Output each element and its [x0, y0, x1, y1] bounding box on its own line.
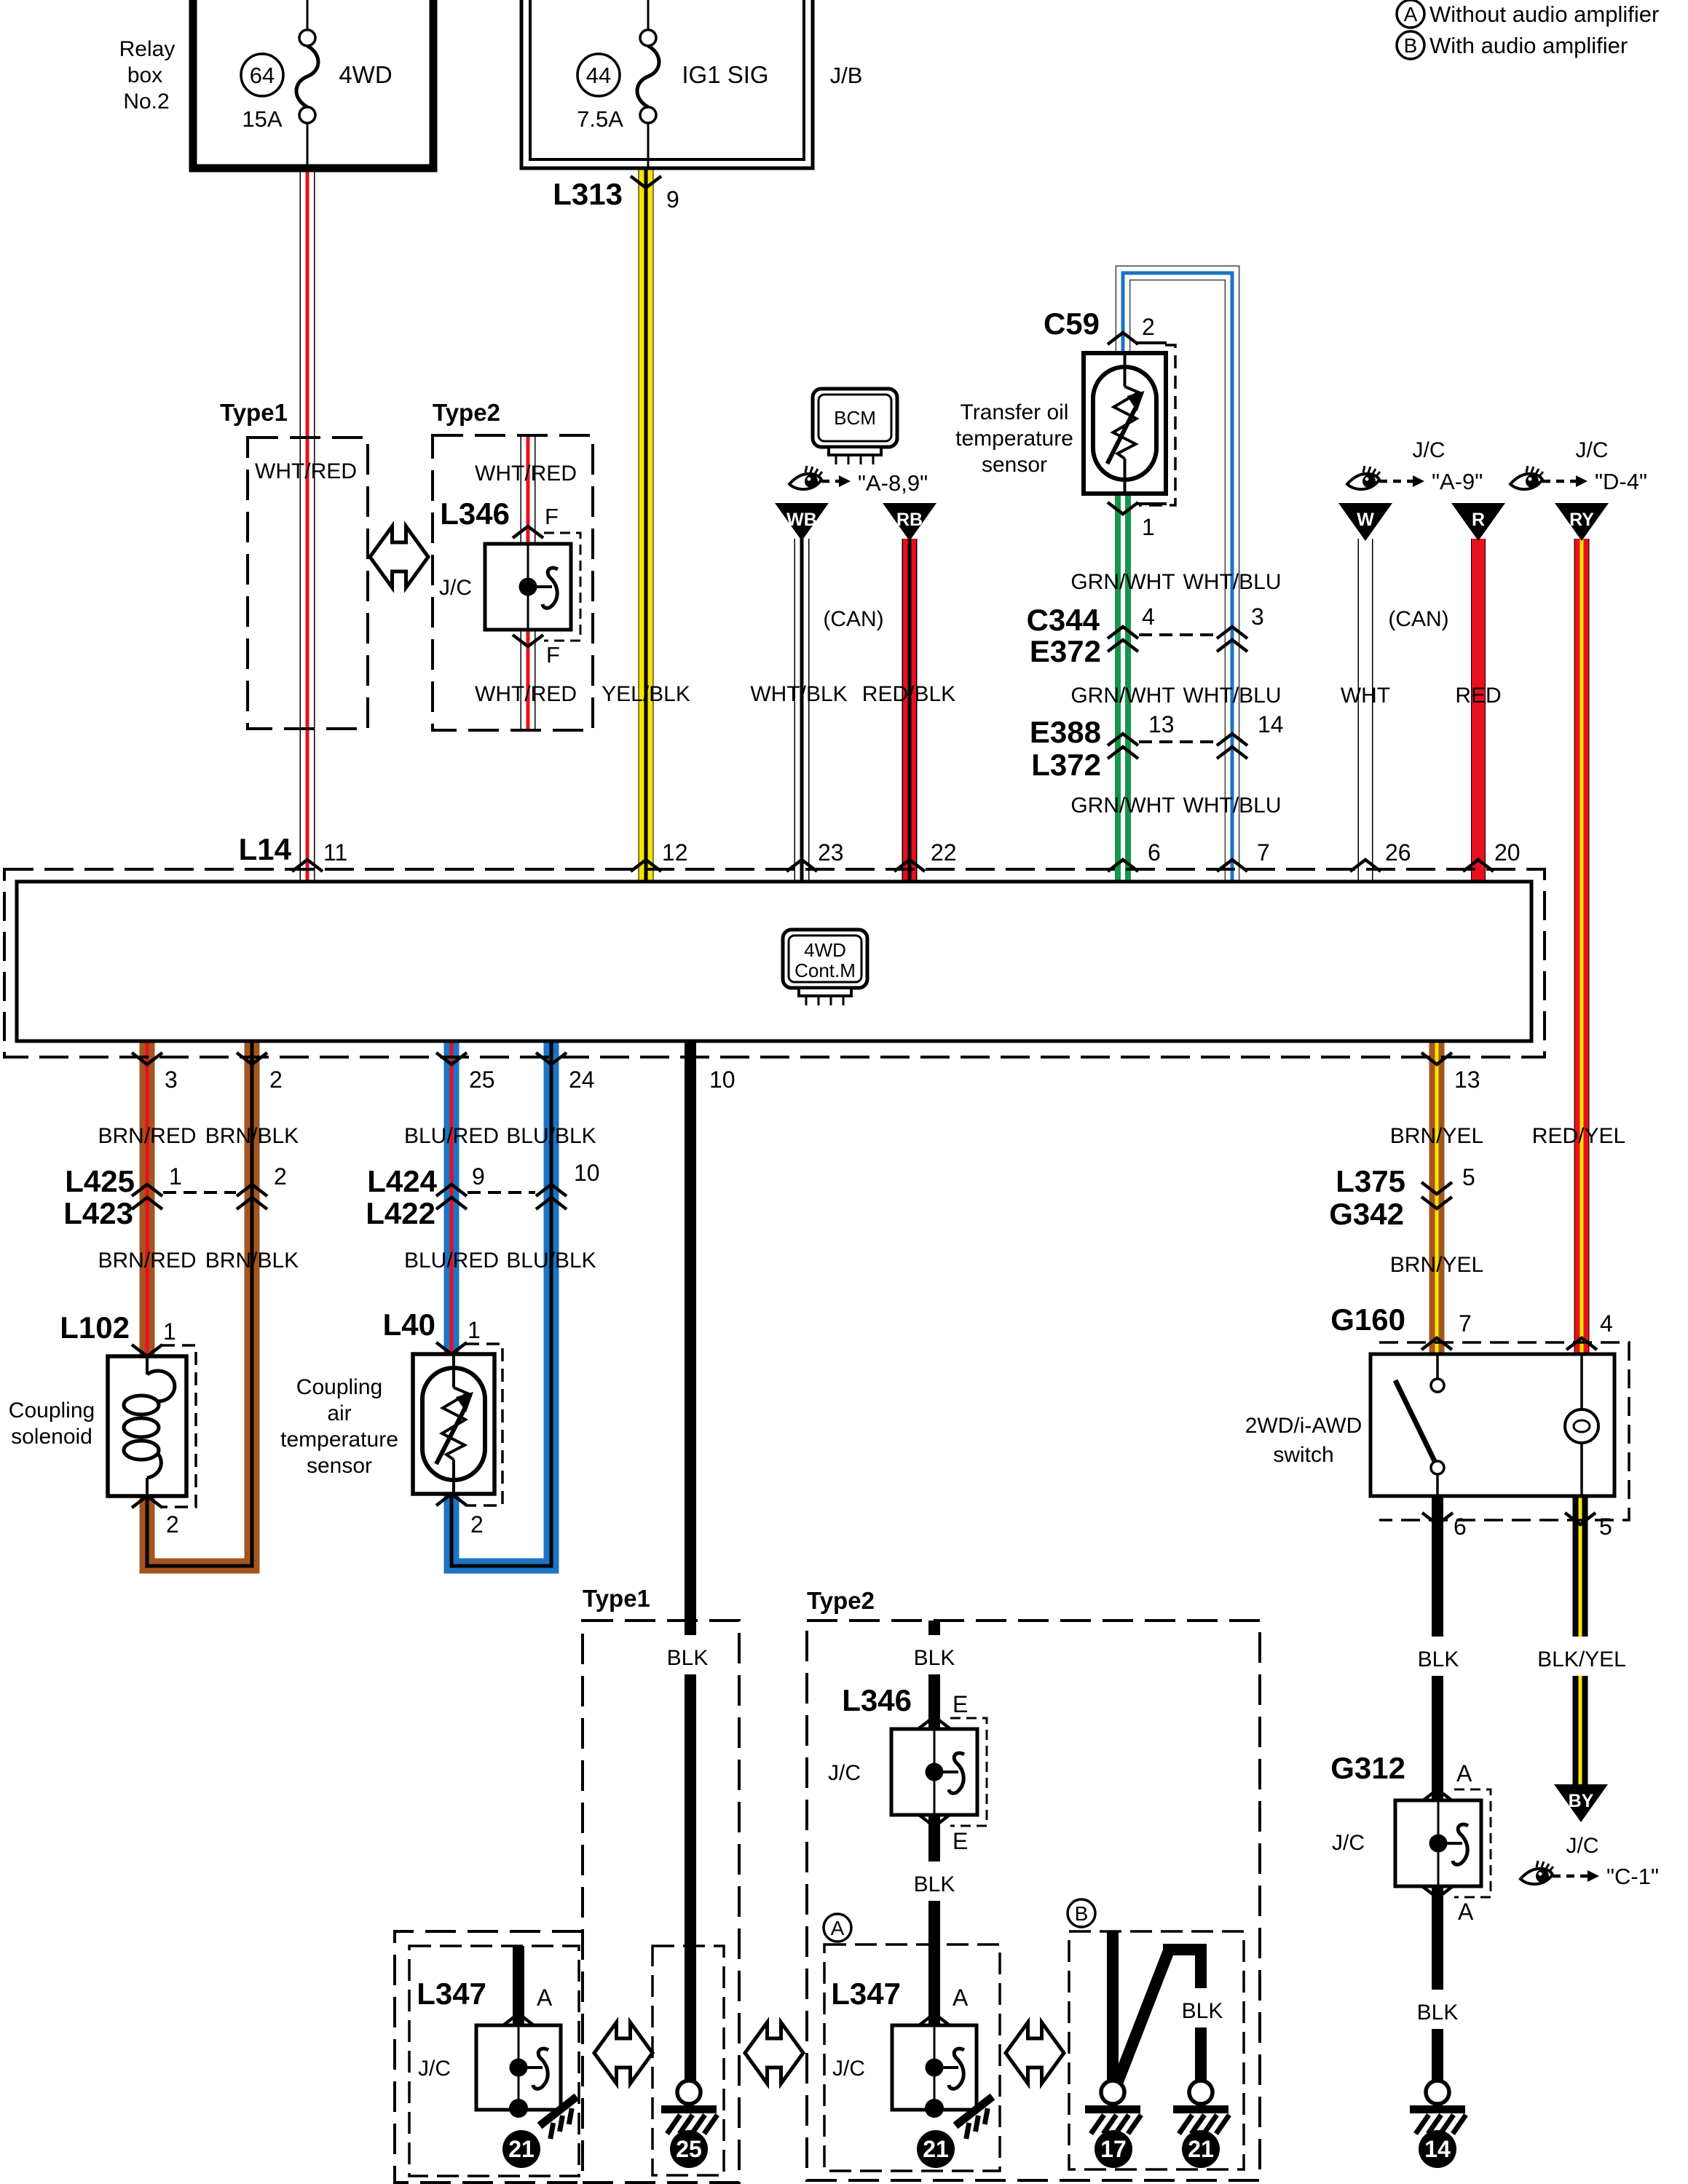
- svg-text:sensor: sensor: [307, 1454, 372, 1478]
- svg-text:J/C: J/C: [418, 2057, 451, 2081]
- svg-text:1: 1: [1142, 514, 1155, 540]
- svg-text:BLK: BLK: [1182, 1999, 1223, 2023]
- svg-text:Type2: Type2: [433, 399, 500, 426]
- svg-text:sensor: sensor: [982, 453, 1047, 477]
- svg-text:box: box: [127, 63, 162, 87]
- svg-text:7: 7: [1459, 1310, 1472, 1337]
- svg-text:E: E: [953, 1828, 968, 1854]
- svg-text:1: 1: [169, 1163, 182, 1190]
- svg-text:15A: 15A: [242, 106, 282, 132]
- svg-text:L423: L423: [63, 1196, 133, 1230]
- svg-text:BLK: BLK: [914, 1646, 955, 1670]
- svg-text:12: 12: [662, 839, 688, 866]
- svg-text:B: B: [1075, 1902, 1089, 1925]
- svg-text:2: 2: [470, 1511, 484, 1538]
- svg-text:BLU/BLK: BLU/BLK: [506, 1124, 596, 1148]
- svg-text:6: 6: [1454, 1514, 1467, 1540]
- svg-text:22: 22: [931, 839, 957, 866]
- svg-text:2: 2: [269, 1067, 283, 1093]
- svg-text:J/C: J/C: [1413, 438, 1446, 462]
- svg-text:4: 4: [1142, 604, 1155, 630]
- svg-text:G342: G342: [1329, 1197, 1404, 1231]
- svg-text:2: 2: [274, 1163, 287, 1190]
- svg-text:F: F: [546, 642, 560, 668]
- svg-text:J/C: J/C: [1332, 1831, 1365, 1855]
- svg-text:Type2: Type2: [807, 1587, 875, 1614]
- svg-text:17: 17: [1100, 2136, 1127, 2162]
- svg-text:5: 5: [1599, 1514, 1612, 1540]
- svg-text:air: air: [327, 1401, 351, 1425]
- svg-text:With audio amplifier: With audio amplifier: [1429, 33, 1628, 58]
- svg-text:temperature: temperature: [280, 1428, 398, 1452]
- svg-text:L102: L102: [60, 1310, 130, 1345]
- svg-text:21: 21: [508, 2136, 535, 2162]
- svg-text:BRN/YEL: BRN/YEL: [1390, 1124, 1483, 1148]
- svg-text:YEL/BLK: YEL/BLK: [602, 682, 690, 706]
- svg-text:3: 3: [165, 1067, 178, 1093]
- svg-text:No.2: No.2: [123, 90, 169, 114]
- svg-text:BLK/YEL: BLK/YEL: [1537, 1647, 1626, 1671]
- svg-text:RY: RY: [1569, 510, 1594, 530]
- svg-text:25: 25: [469, 1067, 495, 1093]
- svg-text:J/C: J/C: [828, 1761, 861, 1785]
- svg-text:2WD/i-AWD: 2WD/i-AWD: [1245, 1414, 1362, 1438]
- svg-text:L346: L346: [842, 1683, 912, 1717]
- svg-text:Coupling: Coupling: [9, 1398, 95, 1423]
- svg-text:L424: L424: [367, 1164, 437, 1198]
- svg-text:Without audio amplifier: Without audio amplifier: [1429, 1, 1659, 27]
- svg-text:Transfer oil: Transfer oil: [961, 400, 1069, 424]
- svg-text:L14: L14: [239, 832, 292, 866]
- svg-text:5: 5: [1462, 1164, 1475, 1190]
- svg-text:RED/YEL: RED/YEL: [1532, 1124, 1625, 1148]
- svg-text:L422: L422: [366, 1196, 435, 1230]
- svg-text:BLK: BLK: [914, 1872, 955, 1896]
- svg-text:6: 6: [1148, 839, 1161, 866]
- svg-text:GRN/WHT: GRN/WHT: [1070, 794, 1175, 818]
- svg-text:L372: L372: [1031, 748, 1101, 782]
- svg-text:BRN/RED: BRN/RED: [98, 1249, 196, 1273]
- svg-text:13: 13: [1454, 1067, 1480, 1093]
- svg-text:L313: L313: [553, 177, 623, 211]
- svg-text:BRN/BLK: BRN/BLK: [205, 1124, 299, 1148]
- svg-text:WHT/RED: WHT/RED: [475, 462, 577, 486]
- svg-text:L40: L40: [383, 1307, 435, 1342]
- svg-text:2: 2: [1142, 314, 1155, 340]
- svg-text:switch: switch: [1273, 1443, 1333, 1467]
- svg-text:1: 1: [468, 1317, 481, 1343]
- svg-text:4: 4: [1600, 1310, 1613, 1337]
- svg-text:A: A: [537, 1985, 553, 2011]
- svg-text:E388: E388: [1030, 715, 1101, 749]
- svg-text:Relay: Relay: [119, 37, 175, 61]
- svg-text:1: 1: [163, 1318, 176, 1345]
- svg-text:4WD: 4WD: [339, 61, 392, 88]
- svg-text:13: 13: [1148, 711, 1175, 737]
- svg-text:Coupling: Coupling: [296, 1375, 382, 1399]
- svg-text:WB: WB: [786, 510, 817, 530]
- svg-text:R: R: [1472, 510, 1485, 530]
- svg-text:25: 25: [676, 2136, 702, 2162]
- svg-text:9: 9: [666, 186, 679, 213]
- svg-text:BLU/RED: BLU/RED: [404, 1124, 499, 1148]
- svg-text:"D-4": "D-4": [1595, 469, 1647, 494]
- svg-text:26: 26: [1385, 839, 1411, 866]
- svg-text:9: 9: [472, 1163, 485, 1190]
- svg-text:L425: L425: [65, 1164, 135, 1198]
- svg-text:solenoid: solenoid: [11, 1425, 92, 1449]
- svg-text:14: 14: [1424, 2136, 1451, 2162]
- svg-text:L347: L347: [417, 1977, 486, 2011]
- svg-text:E: E: [953, 1691, 968, 1717]
- svg-text:BLU/RED: BLU/RED: [404, 1249, 499, 1273]
- svg-text:BRN/YEL: BRN/YEL: [1390, 1253, 1483, 1277]
- svg-text:J/C: J/C: [1566, 1834, 1599, 1858]
- svg-text:2: 2: [166, 1511, 179, 1538]
- svg-text:(CAN): (CAN): [823, 607, 883, 631]
- svg-text:BLU/BLK: BLU/BLK: [506, 1249, 596, 1273]
- svg-text:F: F: [545, 504, 559, 529]
- svg-text:A: A: [1404, 3, 1418, 25]
- svg-text:WHT/RED: WHT/RED: [475, 682, 577, 706]
- svg-text:BCM: BCM: [834, 407, 876, 429]
- svg-text:J/B: J/B: [830, 63, 863, 88]
- svg-text:64: 64: [250, 63, 275, 88]
- svg-text:Cont.M: Cont.M: [794, 960, 856, 981]
- svg-text:3: 3: [1251, 604, 1264, 630]
- svg-text:A: A: [1458, 1899, 1474, 1925]
- svg-text:RED: RED: [1455, 684, 1501, 708]
- svg-text:A: A: [1456, 1760, 1472, 1787]
- svg-text:BLK: BLK: [1418, 1647, 1459, 1671]
- svg-text:Type1: Type1: [220, 399, 288, 426]
- svg-text:WHT/RED: WHT/RED: [255, 459, 357, 483]
- svg-text:W: W: [1357, 510, 1374, 530]
- svg-text:WHT: WHT: [1341, 684, 1390, 708]
- svg-text:BRN/BLK: BRN/BLK: [205, 1249, 299, 1273]
- svg-text:7: 7: [1257, 839, 1270, 866]
- svg-text:23: 23: [818, 839, 844, 866]
- svg-text:WHT/BLU: WHT/BLU: [1183, 794, 1282, 818]
- svg-text:BY: BY: [1569, 1791, 1594, 1811]
- svg-text:E372: E372: [1030, 634, 1101, 668]
- svg-text:GRN/WHT: GRN/WHT: [1070, 570, 1175, 594]
- svg-text:BLK: BLK: [667, 1646, 709, 1670]
- svg-text:14: 14: [1258, 711, 1284, 737]
- svg-text:J/C: J/C: [832, 2057, 865, 2081]
- svg-text:Type1: Type1: [583, 1585, 650, 1612]
- svg-text:BRN/RED: BRN/RED: [98, 1124, 196, 1148]
- svg-text:IG1 SIG: IG1 SIG: [682, 61, 768, 88]
- svg-text:GRN/WHT: GRN/WHT: [1070, 684, 1175, 708]
- svg-text:4WD: 4WD: [804, 939, 846, 961]
- svg-text:C344: C344: [1027, 603, 1100, 637]
- svg-text:21: 21: [923, 2136, 949, 2162]
- svg-text:RB: RB: [896, 510, 923, 530]
- svg-text:WHT/BLK: WHT/BLK: [750, 682, 847, 706]
- svg-text:B: B: [1404, 34, 1418, 57]
- svg-text:L347: L347: [831, 1977, 901, 2011]
- svg-text:RED/BLK: RED/BLK: [862, 682, 955, 706]
- svg-text:11: 11: [323, 839, 347, 866]
- svg-text:"A-9": "A-9": [1432, 469, 1483, 494]
- svg-text:L346: L346: [440, 496, 510, 531]
- svg-text:20: 20: [1494, 839, 1521, 866]
- svg-text:temperature: temperature: [955, 427, 1073, 451]
- svg-text:A: A: [831, 1917, 845, 1939]
- svg-text:10: 10: [709, 1067, 735, 1093]
- svg-text:21: 21: [1188, 2136, 1214, 2162]
- svg-text:L375: L375: [1336, 1164, 1405, 1198]
- svg-text:7.5A: 7.5A: [577, 106, 623, 132]
- svg-text:WHT/BLU: WHT/BLU: [1183, 684, 1282, 708]
- svg-text:G160: G160: [1330, 1302, 1405, 1337]
- svg-text:J/C: J/C: [439, 576, 472, 600]
- svg-text:"C-1": "C-1": [1606, 1864, 1659, 1889]
- svg-text:(CAN): (CAN): [1388, 607, 1448, 631]
- svg-text:G312: G312: [1330, 1751, 1405, 1785]
- svg-text:10: 10: [574, 1160, 600, 1186]
- svg-text:"A-8,9": "A-8,9": [858, 470, 928, 496]
- svg-text:A: A: [953, 1985, 969, 2011]
- svg-text:24: 24: [569, 1067, 595, 1093]
- svg-text:WHT/BLU: WHT/BLU: [1183, 570, 1282, 594]
- svg-text:44: 44: [586, 63, 611, 88]
- svg-text:J/C: J/C: [1576, 438, 1609, 462]
- svg-text:C59: C59: [1044, 306, 1100, 341]
- svg-text:BLK: BLK: [1417, 2001, 1459, 2025]
